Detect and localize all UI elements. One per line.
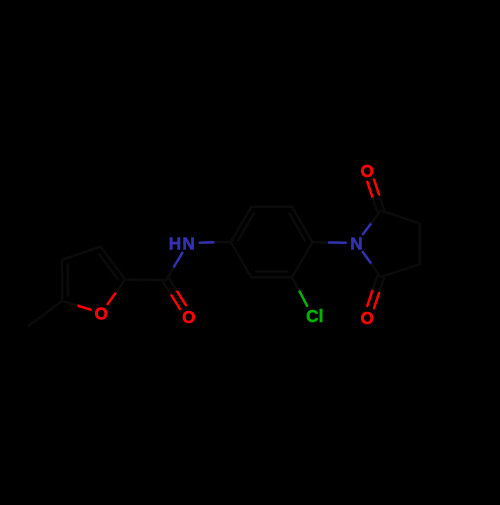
svg-text:O: O bbox=[361, 308, 374, 328]
svg-text:O: O bbox=[182, 307, 195, 327]
svg-text:O: O bbox=[361, 161, 374, 181]
svg-text:l: l bbox=[319, 306, 324, 326]
svg-text:C: C bbox=[306, 306, 318, 326]
svg-text:O: O bbox=[95, 304, 108, 324]
svg-text:N: N bbox=[350, 234, 362, 254]
svg-text:N: N bbox=[182, 234, 194, 254]
svg-text:H: H bbox=[169, 234, 181, 254]
